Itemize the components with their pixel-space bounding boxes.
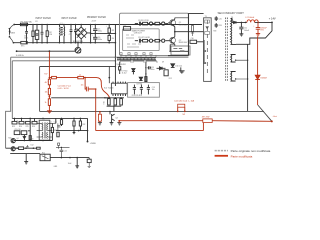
svg-text:+: + (253, 26, 255, 28)
wire lower top rail (12, 117, 87, 119)
svg-text:100u: 100u (151, 69, 155, 71)
resistor R3 vertical (108, 25, 110, 34)
transistor Q5 (11, 147, 15, 151)
transformer T1 core (226, 18, 228, 82)
resistor R5 drive upper (143, 22, 148, 25)
capacitor C22 (60, 147, 64, 157)
red branch wire to pot (49, 77, 85, 79)
vertical branch (28, 118, 30, 140)
svg-text:1M: 1M (49, 34, 52, 36)
diode D11 (23, 135, 25, 141)
svg-text:C25: C25 (219, 18, 222, 20)
svg-text:R13: R13 (102, 101, 104, 104)
svg-text:Parte originale non modificata: Parte originale non modificata (231, 149, 271, 153)
resistor R18 red (48, 88, 50, 94)
transistor Q3 (110, 111, 115, 121)
svg-text:R32: R32 (82, 124, 85, 126)
diode D5 lower circle (162, 39, 165, 42)
svg-text:C20: C20 (30, 138, 33, 140)
resistor R21 red to ground (99, 111, 101, 122)
node DC+ vertical (90, 25, 92, 43)
transformer T1 primary (204, 18, 212, 82)
ground Q3 (110, 121, 114, 125)
svg-text:-Vout: -Vout (273, 115, 278, 118)
svg-text:330u: 330u (98, 31, 102, 33)
svg-text:10n: 10n (81, 84, 84, 86)
svg-text:GND: GND (54, 166, 58, 168)
red wire loop bottom (96, 130, 204, 132)
svg-text:CX: CX (35, 21, 38, 23)
capacitor C12 red electrolytic (256, 22, 261, 33)
wire mid lower (13, 140, 52, 142)
capacitor C1 (25, 25, 28, 43)
svg-text:Q3: Q3 (115, 117, 117, 119)
resistor R22 controller load (203, 119, 212, 123)
ground R21 (98, 123, 102, 125)
IC pins top (113, 82, 126, 84)
svg-text:1k 2k2: 1k 2k2 (122, 73, 127, 75)
capacitor C10 drive lower (135, 39, 143, 43)
ground branch (75, 158, 79, 168)
wire diagonal to output minus (258, 105, 272, 121)
wire left vertical pair (6, 57, 11, 148)
svg-text:SECONDARY PART: SECONDARY PART (218, 11, 245, 15)
svg-text:Q4: Q4 (16, 138, 18, 140)
earth ground symbol (77, 43, 79, 48)
svg-text:+ 14V: + 14V (269, 17, 276, 21)
svg-text:R33: R33 (219, 25, 222, 27)
resistor R28 on rail (19, 147, 24, 150)
red curve to IC (85, 78, 109, 98)
ground mid (24, 154, 28, 164)
capacitor C6 electrolytic (93, 33, 97, 42)
capacitor C9 drive upper (135, 22, 143, 26)
capacitor C11 output (239, 22, 243, 33)
svg-text:L2 100uH: L2 100uH (246, 17, 255, 19)
wire relay out (50, 157, 89, 159)
svg-text:D1: D1 (231, 17, 233, 19)
resistor R26 (34, 118, 36, 121)
svg-text:C10 R7 D4 R8: C10 R7 D4 R8 (138, 37, 150, 39)
resistor R29 (58, 145, 60, 148)
capacitor C18 red (85, 78, 96, 92)
wire return left vertical (39, 67, 41, 112)
wire mid rail (91, 32, 116, 34)
transistor Q4 (11, 138, 15, 142)
snubber capacitor (190, 40, 197, 43)
svg-text:R23: R23 (12, 126, 15, 128)
ground third (117, 123, 121, 125)
inductor L2 output red (247, 20, 258, 23)
red wire loop right vertical (202, 123, 204, 131)
svg-text:10uF: 10uF (68, 163, 72, 165)
wire secondary taps (236, 60, 248, 79)
svg-text:0.4V - 10.5V: 0.4V - 10.5V (58, 88, 70, 90)
inner control box (123, 29, 160, 51)
svg-text:R17: R17 (44, 73, 47, 75)
IC pins bottom (113, 94, 126, 96)
wire 5VSB rail (56, 118, 88, 141)
capacitor C4 (74, 25, 77, 43)
column left of opto outside (52, 122, 55, 124)
wire red from cap down (257, 37, 259, 106)
svg-text:Controller load 1 - 10A: Controller load 1 - 10A (174, 100, 195, 103)
capacitor C13 (147, 66, 151, 69)
rail node B- vertical (114, 25, 116, 87)
svg-text:IC1: IC1 (123, 25, 126, 27)
IC U1 small (123, 27, 130, 31)
svg-text:4: 4 (51, 122, 52, 124)
svg-text:R12: R12 (169, 78, 172, 80)
transformer T1 secondary upper (231, 19, 232, 45)
box end branch (88, 158, 90, 160)
svg-text:D9: D9 (162, 61, 164, 63)
resistor R30 (57, 132, 59, 137)
red divider chain vertical (48, 52, 50, 111)
transformer T1 secondary lower (231, 55, 232, 63)
wire output route down (236, 22, 272, 111)
wire Q2 emitter down (170, 45, 188, 52)
diode D8 (139, 77, 142, 80)
fuse F1 (20, 23, 27, 26)
svg-text:330u: 330u (98, 39, 102, 41)
resistor R19 red (52, 76, 57, 78)
component row above T2 (121, 55, 156, 58)
svg-text:230V: 230V (11, 33, 16, 35)
svg-text:MJE13007: MJE13007 (179, 24, 188, 26)
svg-text:R3: R3 (112, 30, 114, 32)
transformer T2 driver (117, 57, 156, 60)
svg-text:C24: C24 (54, 122, 57, 124)
wire ground bus horizontal (40, 110, 264, 112)
capacitor C3 (70, 25, 73, 43)
common mode choke L (60, 25, 65, 43)
svg-text:INPUT FILTER: INPUT FILTER (61, 18, 77, 20)
svg-text:R9: R9 (118, 64, 120, 66)
svg-text:R14 R15 R16: R14 R15 R16 (132, 95, 142, 97)
wire return upper (40, 66, 116, 68)
wire top AC rail (14, 24, 202, 26)
junction dots input filter (26, 24, 48, 44)
transistor Q2 (168, 35, 175, 45)
resistor R8 lower (155, 39, 160, 42)
svg-text:5W: 5W (182, 114, 185, 116)
wire output plus (255, 21, 272, 23)
svg-text:L1: L1 (61, 23, 63, 25)
svg-text:Parte modificata: Parte modificata (231, 154, 253, 158)
svg-text:C22: C22 (64, 150, 67, 152)
svg-text:1N4007: 1N4007 (260, 78, 267, 80)
svg-text:F1 250V 2A: F1 250V 2A (21, 21, 33, 24)
capacitor C26 on transformer (215, 23, 218, 28)
svg-text:T3: T3 (42, 118, 44, 120)
svg-text:100n: 100n (24, 38, 28, 40)
wire mid lower2 (15, 140, 52, 142)
svg-text:Controllo V out: Controllo V out (58, 85, 72, 88)
svg-text:D12: D12 (31, 144, 34, 146)
resistor R6 upper (155, 22, 160, 25)
svg-text:R25: R25 (26, 126, 29, 128)
svg-text:25V: 25V (261, 30, 265, 32)
svg-text:+: + (106, 26, 108, 28)
wire bottom AC rail (13, 42, 115, 44)
resistor R17 red (48, 79, 50, 85)
wire Q1 collector to rail (170, 18, 188, 44)
svg-text:D10 C14: D10 C14 (175, 65, 182, 67)
T3 pins (37, 123, 53, 137)
svg-text:NTC: NTC (21, 46, 25, 48)
ground sym mid (179, 67, 185, 73)
capacitor C2 (41, 25, 44, 43)
drive network box (171, 46, 190, 55)
svg-text:T1: T1 (205, 16, 207, 18)
diode D2 upper (149, 22, 152, 25)
svg-text:+310V: +310V (91, 21, 97, 23)
resistor R24 (21, 118, 23, 121)
svg-text:C19 C20: C19 C20 (14, 129, 20, 131)
svg-text:1: 1 (37, 122, 38, 124)
svg-text:4R7 25W: 4R7 25W (202, 117, 210, 119)
resistor NTC on bottom rail (21, 41, 27, 44)
resistor R7 drive lower (143, 39, 148, 42)
wire relay feed (10, 153, 40, 155)
diode D10 (171, 64, 175, 68)
capacitor C5 electrolytic (93, 25, 97, 34)
resistor R25 (27, 118, 29, 121)
svg-text:R26: R26 (32, 126, 35, 128)
bridge rectifier B1 (75, 27, 87, 39)
resistor R9 (119, 62, 121, 74)
resistor R35 on vertical (29, 136, 31, 140)
resistor R12 (164, 70, 168, 76)
diode D7 pair (132, 69, 135, 75)
svg-text:o: o (17, 120, 18, 122)
svg-text:PRIMARY FILTER: PRIMARY FILTER (87, 16, 106, 19)
wire sub segment (56, 146, 70, 148)
resistor R27 right of opto (51, 123, 53, 140)
T2 secondary windings (120, 60, 157, 62)
legend original line (215, 150, 228, 152)
resistor R23 (14, 118, 16, 121)
resistor R11 (145, 77, 147, 82)
capacitor C19 (14, 131, 20, 135)
TL494 IC box (111, 83, 127, 94)
ground C11 (239, 34, 243, 36)
svg-text:+: + (92, 34, 94, 36)
svg-text:R33: R33 (213, 30, 216, 32)
wire feedback long (51, 97, 109, 99)
capacitor C25 on transformer (215, 16, 218, 21)
red wire load bus (119, 121, 272, 123)
transformer T3 standby (39, 120, 50, 140)
resistor R32 hang (79, 118, 81, 121)
legend modified line (215, 155, 228, 157)
wire vertical to IC (108, 67, 110, 84)
svg-text:C30: C30 (191, 38, 194, 40)
resistor network under IC (105, 97, 124, 99)
svg-text:INPUT FILTER: INPUT FILTER (36, 18, 52, 20)
ground red chain (47, 111, 52, 113)
resistor R2 vertical (46, 25, 48, 43)
resistor R36 red bridge on gray wire (178, 107, 185, 111)
wire gray bus upper (11, 56, 189, 58)
svg-text:C9 R5 D2 R6: C9 R5 D2 R6 (138, 20, 149, 22)
snubber vertical (188, 13, 203, 55)
svg-text:4k7: 4k7 (45, 82, 48, 84)
capacitor CX X2 box (36, 25, 38, 43)
svg-text:IC1 TL494: IC1 TL494 (104, 88, 114, 90)
main power circuit gray box (120, 13, 189, 55)
svg-text:10k: 10k (45, 91, 48, 93)
svg-text:CIRCUIT: CIRCUIT (134, 33, 143, 35)
resistor R20 red 1k (78, 76, 84, 78)
diode D3 upper circle (162, 22, 165, 25)
svg-text:C3: C3 (69, 34, 71, 36)
relay RL1 (40, 154, 50, 161)
svg-text:1k: 1k (45, 102, 47, 104)
red wire loop left vertical (95, 89, 97, 131)
AC input source symbol (9, 29, 11, 37)
diode D4 lower (149, 39, 152, 42)
svg-text:+: + (92, 26, 94, 28)
svg-text:RL1: RL1 (42, 152, 45, 154)
svg-text:100uF: 100uF (244, 30, 250, 32)
resistor R19c red (48, 99, 50, 106)
capacitor C17 (147, 85, 150, 95)
diode D9 cluster (157, 67, 166, 70)
capacitor C20 (21, 131, 27, 135)
diode D1 output (232, 19, 247, 23)
resistor R1 vertical (32, 25, 34, 43)
capacitor C16 (140, 85, 143, 95)
transistor Q1 (168, 18, 175, 28)
resistor R31 hang (73, 118, 75, 121)
svg-text:MJE13007: MJE13007 (179, 42, 188, 44)
svg-text:R40: R40 (8, 138, 11, 140)
wire node S (17, 50, 75, 52)
wire bottom rail (6, 147, 37, 149)
svg-text:10n: 10n (152, 89, 155, 91)
wire half bridge midpoint (175, 28, 204, 35)
wire lower return (168, 55, 188, 57)
legend (215, 149, 271, 158)
wire T2 right leg (145, 62, 147, 82)
diode D6 red 1N4007 (255, 75, 260, 79)
standby sub box (128, 83, 160, 98)
svg-text:1k: 1k (79, 74, 81, 76)
resistor R4 vertical (108, 33, 110, 42)
small box K (37, 147, 41, 149)
svg-text:R4: R4 (112, 38, 114, 40)
capacitor C15 (133, 85, 136, 95)
capacitor C24 (57, 126, 60, 127)
resistor R34 (61, 118, 63, 126)
svg-text:R24: R24 (19, 126, 22, 128)
svg-text:+5VSB: +5VSB (90, 143, 97, 145)
capacitor C21 (26, 145, 28, 148)
wire gray bus lower (12, 60, 115, 62)
